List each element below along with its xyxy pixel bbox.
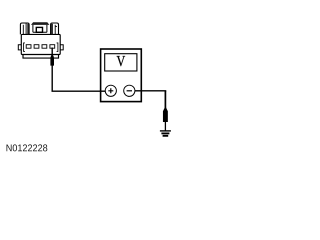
connector C1 pin slot 4 — [50, 45, 55, 49]
test probe P2 (ground lead) — [163, 108, 168, 122]
connector C1 left mounting tab — [20, 23, 29, 34]
wire from probe P1 down — [51, 65, 53, 91]
wire to voltmeter positive terminal — [52, 90, 106, 92]
connector C1 inner right bracket — [57, 43, 58, 52]
test probe P1 (positive lead at pin 4) — [50, 48, 54, 66]
connector C1 inner left bracket — [24, 43, 25, 52]
wire from negative terminal right — [135, 90, 167, 92]
voltmeter U1 negative terminal — [124, 85, 135, 96]
connector C1 pin slot 1 — [26, 45, 31, 49]
wire down to ground probe — [164, 91, 166, 109]
connector C1 pin slot 2 — [34, 45, 39, 49]
connector C1 latch button — [36, 27, 42, 32]
voltmeter U1 case — [101, 49, 142, 102]
voltmeter U1 positive terminal — [105, 85, 116, 96]
connector C1 left side lock — [18, 45, 21, 50]
connector C1 right mounting tab — [51, 23, 59, 34]
connector C1 latch bridge — [31, 22, 49, 32]
voltmeter U1 V label — [117, 56, 126, 66]
connector C1 pin slot 3 — [42, 45, 47, 49]
figure label N0122228 — [7, 144, 48, 151]
connector C1 right side lock — [60, 45, 63, 50]
voltmeter U1 display window — [105, 54, 137, 71]
wire from probe P2 to ground — [164, 122, 166, 131]
ground symbol — [160, 131, 171, 136]
connector C1 body — [21, 34, 60, 58]
